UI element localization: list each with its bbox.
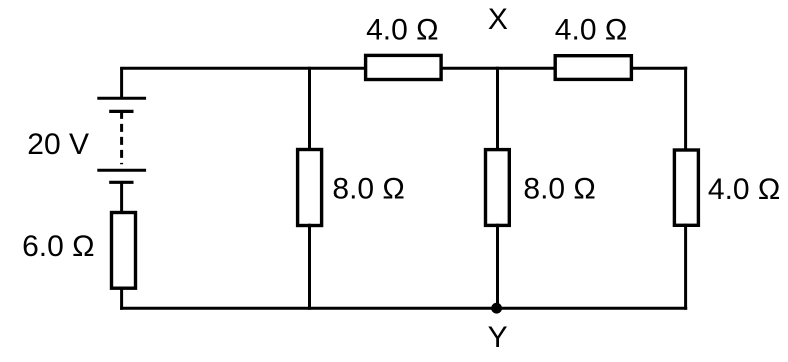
resistor R2 8.0 ohm (first vertical branch) (298, 150, 322, 226)
svg-text:8.0 Ω: 8.0 Ω (523, 173, 595, 206)
wire branch 2 upper (node X to R3) (496, 67, 499, 151)
svg-text:8.0 Ω: 8.0 Ω (332, 173, 404, 206)
wire right rail lower (R6 to bottom rail) (684, 224, 687, 310)
wire left rail top (top rail to battery) (120, 68, 123, 98)
wire top rail right segment (630, 67, 687, 70)
svg-text:6.0 Ω: 6.0 Ω (22, 230, 94, 263)
resistor R6 4.0 ohm (right, vertical) (674, 150, 698, 225)
svg-text:Y: Y (488, 321, 508, 354)
wire branch 2 lower (R3 to node Y) (496, 224, 499, 310)
svg-text:4.0 Ω: 4.0 Ω (555, 14, 627, 47)
wire branch 1 lower (R2 to bottom rail) (308, 224, 311, 310)
wire R5 to bottom rail (120, 287, 123, 310)
resistor R3 8.0 ohm (middle vertical branch) (486, 150, 510, 226)
resistor R1 4.0 ohm (top left, horizontal) (366, 55, 442, 79)
battery B1 (two cells with dashed link) (97, 98, 146, 182)
wire top rail middle segment (node X) (440, 67, 557, 70)
node Y junction dot (491, 303, 502, 314)
svg-text:4.0 Ω: 4.0 Ω (366, 14, 438, 47)
wire top rail left segment (120, 67, 367, 70)
resistor R4 4.0 ohm (top right, horizontal) (555, 56, 631, 80)
wire bottom rail (120, 307, 687, 310)
svg-text:4.0 Ω: 4.0 Ω (708, 173, 780, 206)
svg-text:20 V: 20 V (27, 128, 89, 161)
wire battery to resistor R5 (120, 182, 123, 214)
wire right rail upper (top rail to R6) (684, 67, 687, 152)
svg-text:X: X (488, 3, 508, 36)
resistor R5 6.0 ohm (left, vertical) (112, 213, 136, 289)
wire branch 1 upper (top rail to R2) (308, 67, 311, 151)
